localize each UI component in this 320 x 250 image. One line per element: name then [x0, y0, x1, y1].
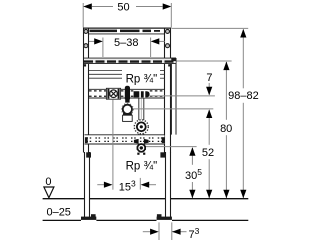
svg-text:Rp ¾": Rp ¾"	[126, 73, 158, 85]
svg-text:7: 7	[206, 72, 212, 84]
svg-text:80: 80	[220, 123, 232, 135]
svg-text:50: 50	[117, 1, 129, 13]
svg-text:98–82: 98–82	[228, 90, 259, 102]
svg-text:0: 0	[45, 176, 51, 188]
svg-text:0–25: 0–25	[46, 206, 70, 218]
svg-text:Rp ¾": Rp ¾"	[126, 160, 158, 172]
svg-text:52: 52	[202, 147, 214, 159]
svg-text:5–38: 5–38	[114, 37, 138, 49]
